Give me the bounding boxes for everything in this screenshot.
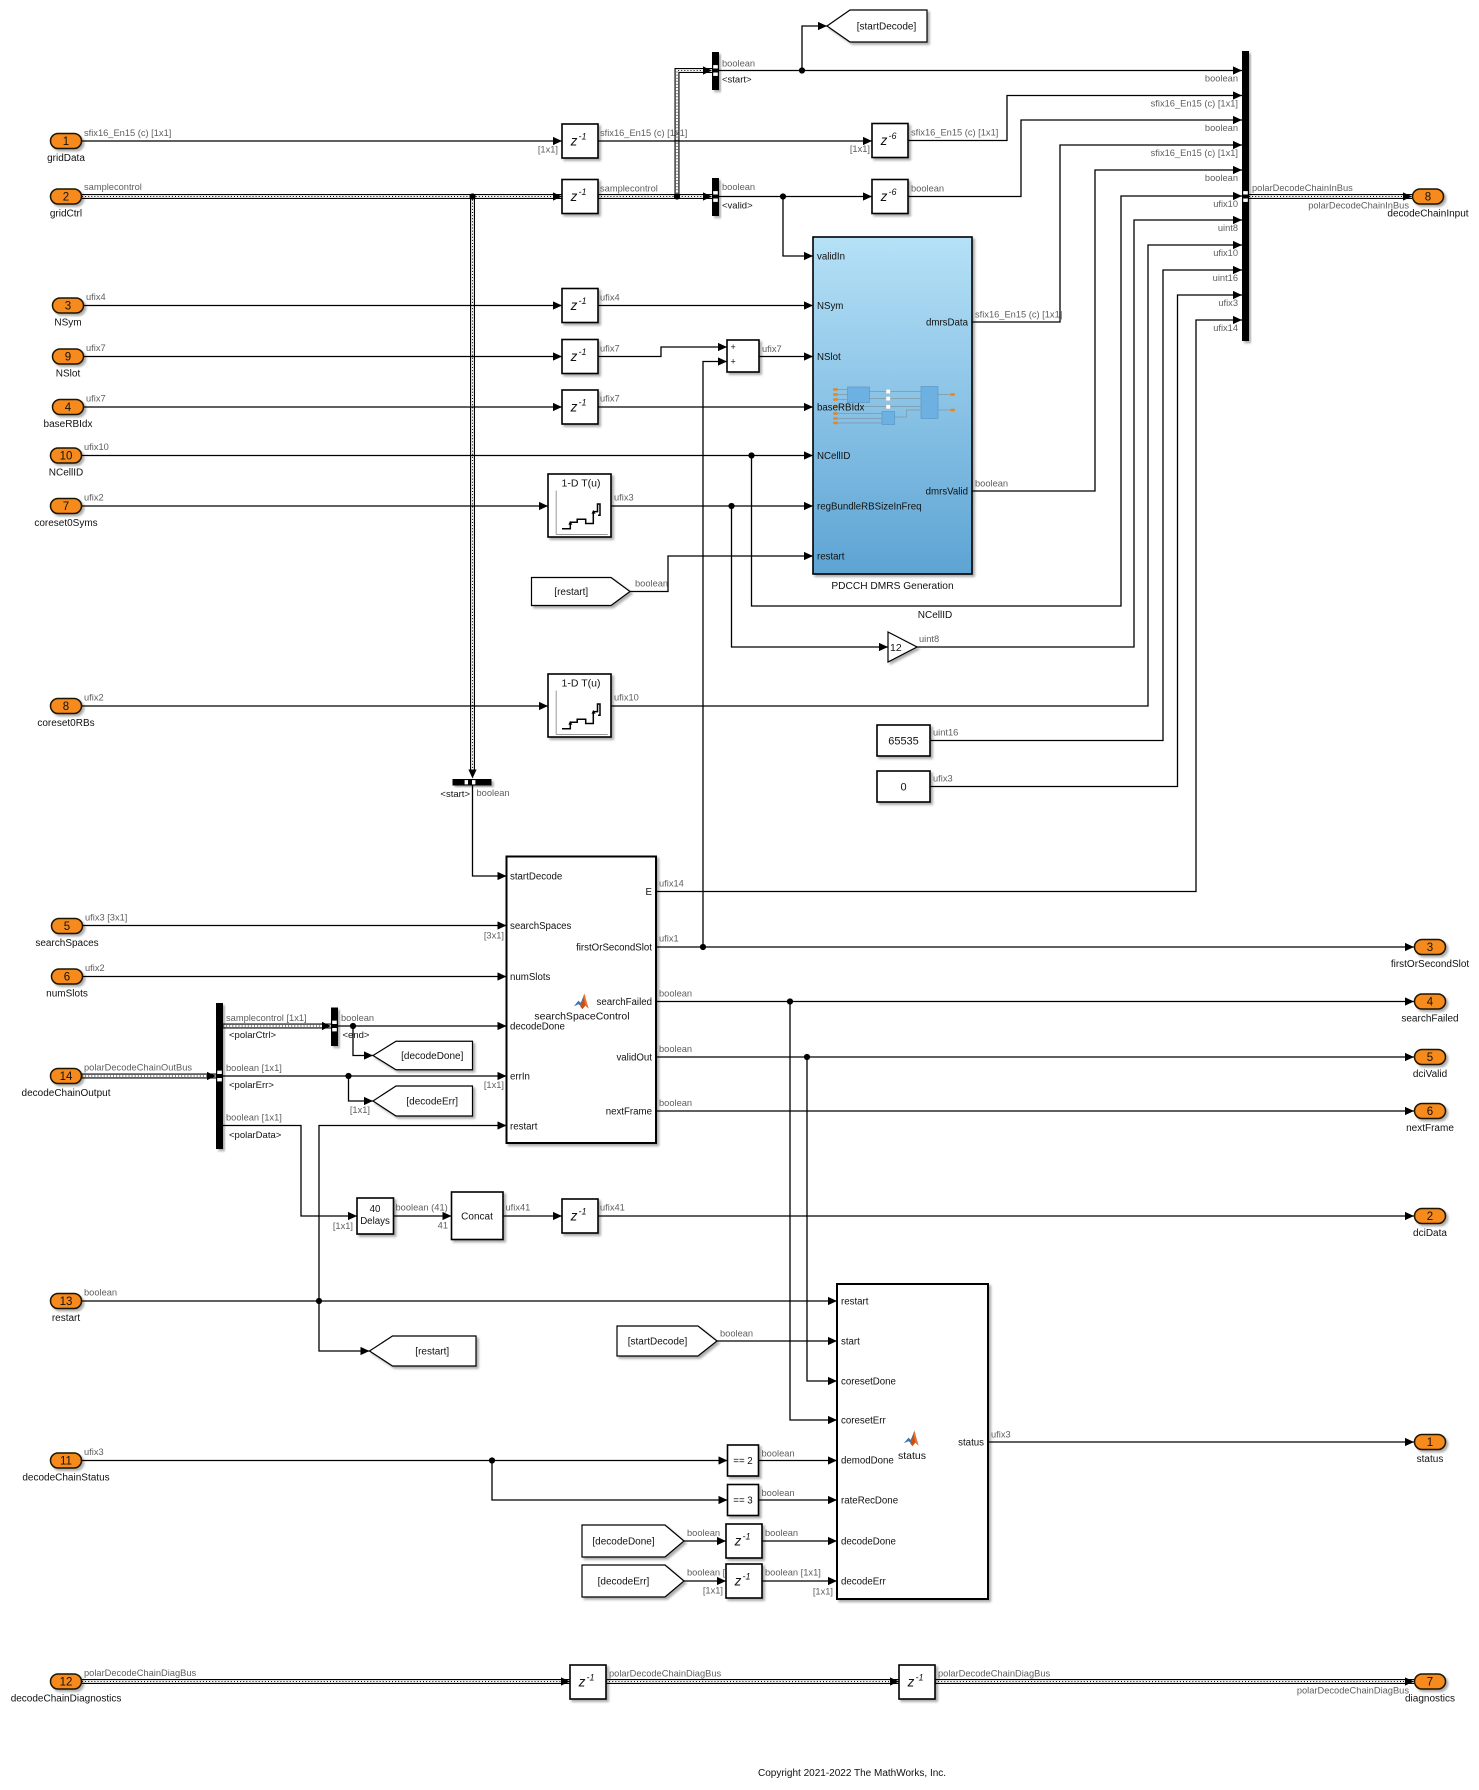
inport 6 numSlots <box>52 969 83 984</box>
svg-text:ufix4: ufix4 <box>86 292 106 302</box>
svg-text:ufix41: ufix41 <box>506 1203 531 1213</box>
svg-text:-1: -1 <box>916 1673 924 1683</box>
wire bus creator to decodeChainInput outport <box>1249 194 1412 199</box>
svg-text:<polarErr>: <polarErr> <box>229 1080 274 1091</box>
wire decodeChainStatus to eq2 <box>82 1460 728 1462</box>
svg-text:ufix3 [3x1]: ufix3 [3x1] <box>85 913 127 923</box>
svg-text:4: 4 <box>65 402 72 414</box>
wire NCellID branch to bus creator <box>752 196 1243 606</box>
svg-text:[decodeErr]: [decodeErr] <box>598 1577 650 1588</box>
block 40 delays <box>357 1198 394 1234</box>
delay Z-1 baseRBIdx <box>562 390 598 424</box>
svg-text:5: 5 <box>64 921 70 933</box>
svg-text:sfix16_En15 (c) [1x1]: sfix16_En15 (c) [1x1] <box>911 128 998 138</box>
wire branch up to startDecode goto <box>802 26 827 71</box>
wire branch to eq3 <box>492 1461 728 1501</box>
wire branch to decodeErr goto <box>349 1076 374 1101</box>
svg-text:coreset0RBs: coreset0RBs <box>37 718 94 729</box>
svg-text:boolean: boolean <box>720 1329 753 1339</box>
svg-text:coreset0Syms: coreset0Syms <box>34 518 97 529</box>
svg-text:coresetErr: coresetErr <box>841 1416 886 1427</box>
delay Z-1 decodeErr <box>726 1564 762 1598</box>
svg-text:ufix7: ufix7 <box>600 344 620 354</box>
svg-text:baseRBIdx: baseRBIdx <box>44 419 93 430</box>
svg-text:baseRBIdx: baseRBIdx <box>817 403 865 414</box>
svg-text:[startDecode]: [startDecode] <box>628 1337 688 1348</box>
svg-text:boolean (41): boolean (41) <box>396 1203 448 1213</box>
svg-text:restart: restart <box>510 1122 538 1133</box>
delay Z-1 diagnostics 1 <box>570 1665 606 1699</box>
delay Z-6 data <box>872 124 908 158</box>
svg-text:[decodeDone]: [decodeDone] <box>592 1537 654 1548</box>
svg-text:ufix7: ufix7 <box>762 344 782 354</box>
svg-text:boolean: boolean <box>1205 123 1238 133</box>
svg-text:ufix7: ufix7 <box>86 394 106 404</box>
delay Z-1 NSlot <box>562 340 598 374</box>
from tag startDecode <box>617 1326 717 1356</box>
svg-text:ufix3: ufix3 <box>933 774 953 784</box>
from tag decodeDone <box>582 1525 684 1557</box>
wire E ufix14 to bus creator <box>656 320 1242 892</box>
svg-text:ufix14: ufix14 <box>659 879 684 889</box>
svg-text:NSym: NSym <box>54 318 81 329</box>
svg-text:z: z <box>570 134 578 149</box>
svg-text:rateRecDone: rateRecDone <box>841 1496 898 1507</box>
svg-text:coresetDone: coresetDone <box>841 1377 896 1388</box>
svg-text:dciValid: dciValid <box>1413 1069 1447 1080</box>
svg-text:polarDecodeChainInBus: polarDecodeChainInBus <box>1308 201 1409 211</box>
svg-text:boolean [1x1]: boolean [1x1] <box>226 1113 282 1123</box>
thumbnail lines <box>838 390 950 424</box>
svg-text:-1: -1 <box>743 1572 751 1582</box>
thumbnail subsystem 1 <box>848 387 870 403</box>
wire diag delay2 to outport <box>935 1679 1414 1684</box>
wire sum to NSlot input <box>759 356 813 358</box>
svg-text:boolean: boolean <box>1205 173 1238 183</box>
inport 13 restart <box>51 1294 82 1309</box>
bus selector start <box>712 52 719 90</box>
svg-text:decodeChainDiagnostics: decodeChainDiagnostics <box>11 1694 122 1705</box>
svg-text:1: 1 <box>63 136 69 148</box>
wire gain uint8 to bus creator <box>916 220 1242 647</box>
svg-text:[1x1]: [1x1] <box>538 145 558 155</box>
svg-text:[1x1]: [1x1] <box>813 1587 833 1597</box>
svg-text:Concat: Concat <box>461 1212 493 1223</box>
wire baseRBIdx delay to block <box>598 406 813 408</box>
svg-text:<end>: <end> <box>343 1030 370 1041</box>
svg-text:polarDecodeChainOutBus: polarDecodeChainOutBus <box>84 1063 192 1073</box>
svg-text:+: + <box>731 357 736 367</box>
svg-text:ufix1: ufix1 <box>659 934 679 944</box>
delay Z-6 valid <box>872 180 908 214</box>
svg-text:Delays: Delays <box>360 1216 390 1227</box>
wire Z-6 boolean to bus creator <box>908 120 1242 197</box>
svg-text:ufix10: ufix10 <box>1213 199 1238 209</box>
svg-text:-1: -1 <box>579 296 587 306</box>
svg-text:z: z <box>734 1534 742 1549</box>
svg-text:1-D T(u): 1-D T(u) <box>562 478 601 490</box>
svg-text:3: 3 <box>65 301 71 313</box>
wire start boolean to bus creator <box>719 70 1242 72</box>
svg-text:ufix3: ufix3 <box>84 1447 104 1457</box>
inport 10 NCellID <box>51 448 82 463</box>
svg-text:<start>: <start> <box>722 75 752 86</box>
inport 5 searchSpaces <box>52 919 83 934</box>
svg-text:[1x1]: [1x1] <box>703 1586 723 1596</box>
svg-text:decodeChainStatus: decodeChainStatus <box>22 1473 109 1484</box>
svg-text:NSym: NSym <box>817 301 843 312</box>
svg-text:[decodeErr]: [decodeErr] <box>406 1097 458 1108</box>
svg-text:status: status <box>1417 1454 1444 1465</box>
svg-text:8: 8 <box>1425 192 1431 204</box>
svg-text:searchSpaces: searchSpaces <box>35 938 98 949</box>
svg-text:-1: -1 <box>579 398 587 408</box>
svg-text:boolean: boolean <box>762 1449 795 1459</box>
svg-text:-1: -1 <box>743 1532 751 1542</box>
svg-text:z: z <box>570 400 578 415</box>
svg-text:ufix10: ufix10 <box>614 693 639 703</box>
svg-text:z: z <box>880 189 888 204</box>
outport 4 searchFailed <box>1415 994 1446 1009</box>
wire dmrsData to bus creator <box>972 145 1242 322</box>
svg-text:demodDone: demodDone <box>841 1456 894 1467</box>
from tag restart <box>532 578 631 606</box>
svg-text:firstOrSecondSlot: firstOrSecondSlot <box>576 943 652 954</box>
svg-text:== 3: == 3 <box>733 1496 752 1507</box>
bus selector polarDecodeChainOutBus <box>216 1003 223 1149</box>
svg-text:uint16: uint16 <box>933 728 958 738</box>
svg-text:sfix16_En15 (c) [1x1]: sfix16_En15 (c) [1x1] <box>84 128 171 138</box>
goto tag restart <box>370 1336 477 1366</box>
wire coreset0RBs inport to lookup <box>82 705 548 707</box>
svg-text:2: 2 <box>63 192 69 204</box>
svg-text:boolean: boolean <box>635 579 668 589</box>
svg-text:1-D T(u): 1-D T(u) <box>562 678 601 690</box>
svg-text:boolean: boolean <box>84 1288 117 1298</box>
svg-text:start: start <box>841 1337 860 1348</box>
wire nextFrame to outport <box>656 1110 1414 1112</box>
outport 5 dciValid <box>1415 1050 1446 1065</box>
wire gridData delay to Z-6 <box>598 140 872 142</box>
outport 6 nextFrame <box>1415 1104 1446 1119</box>
svg-text:restart: restart <box>841 1297 869 1308</box>
svg-text:decodeDone: decodeDone <box>841 1537 896 1548</box>
wire searchSpaces inport to control <box>83 925 507 927</box>
svg-text:-1: -1 <box>579 1207 587 1217</box>
svg-text:boolean: boolean <box>911 184 944 194</box>
wire restart inport to status <box>82 1300 837 1302</box>
svg-text:7: 7 <box>63 501 69 513</box>
svg-text:nextFrame: nextFrame <box>606 1107 652 1118</box>
svg-text:validIn: validIn <box>817 252 845 263</box>
svg-text:samplecontrol: samplecontrol <box>84 182 142 192</box>
inport 1 gridData <box>51 134 82 149</box>
wire NSlot inport to delay <box>84 356 562 358</box>
wire constant 65535 to bus creator <box>930 270 1242 741</box>
wire end boolean to decodeDone <box>338 1025 507 1027</box>
thumbnail ports left <box>833 388 838 391</box>
wire branch to decodeDone goto <box>353 1026 373 1056</box>
svg-text:ufix10: ufix10 <box>1213 248 1238 258</box>
svg-text:uint8: uint8 <box>1218 223 1238 233</box>
svg-text:-6: -6 <box>889 131 897 141</box>
svg-text:[3x1]: [3x1] <box>484 931 504 941</box>
wire diag delay1 to delay2 <box>606 1679 899 1684</box>
inport 14 decodeChainOutput <box>51 1069 82 1084</box>
inport 4 baseRBIdx <box>53 400 84 415</box>
svg-text:<polarCtrl>: <polarCtrl> <box>229 1030 276 1041</box>
thumbnail white nodes <box>886 389 890 393</box>
svg-text:6: 6 <box>1427 1106 1433 1118</box>
svg-text:== 2: == 2 <box>733 1456 752 1467</box>
from tag decodeErr <box>582 1565 684 1597</box>
wire concat to delay <box>503 1215 562 1217</box>
sum block <box>727 340 759 372</box>
svg-text:z: z <box>570 1209 578 1224</box>
wire dciData delay to outport <box>598 1215 1414 1217</box>
svg-text:boolean: boolean <box>477 788 510 798</box>
svg-text:boolean: boolean <box>659 1098 692 1108</box>
svg-text:7: 7 <box>1427 1677 1433 1689</box>
svg-text:z: z <box>570 189 578 204</box>
svg-text:ufix2: ufix2 <box>85 963 105 973</box>
wire NSlot delay to sum <box>598 347 727 357</box>
lookup table coreset0Syms <box>548 474 611 537</box>
svg-text:searchSpaces: searchSpaces <box>510 921 572 932</box>
svg-text:decodeErr: decodeErr <box>841 1577 886 1588</box>
svg-text:14: 14 <box>60 1071 73 1083</box>
svg-text:+: + <box>731 342 736 352</box>
bus selector horizontal start <box>453 779 492 786</box>
svg-text:decodeChainOutput: decodeChainOutput <box>22 1088 111 1099</box>
svg-text:10: 10 <box>60 451 73 463</box>
svg-text:ufix3: ufix3 <box>991 1430 1011 1440</box>
wire coreset0Syms inport to lookup <box>82 505 548 507</box>
bus selector end <box>331 1008 338 1047</box>
svg-text:searchFailed: searchFailed <box>597 997 652 1008</box>
svg-text:3: 3 <box>1427 942 1433 954</box>
svg-text:9: 9 <box>65 352 71 364</box>
svg-text:polarDecodeChainDiagBus: polarDecodeChainDiagBus <box>1297 1686 1409 1696</box>
delay Z-1 decodeDone <box>726 1524 762 1558</box>
svg-text:40: 40 <box>370 1204 381 1215</box>
PDCCH DMRS Generation block <box>813 237 972 574</box>
constant 0 <box>877 771 930 802</box>
svg-text:Copyright 2021-2022 The MathWo: Copyright 2021-2022 The MathWorks, Inc. <box>758 1768 946 1779</box>
svg-text:[restart]: [restart] <box>415 1347 449 1358</box>
svg-text:z: z <box>570 349 578 364</box>
block concat <box>452 1192 504 1240</box>
svg-text:firstOrSecondSlot: firstOrSecondSlot <box>1391 959 1470 970</box>
svg-text:boolean: boolean <box>975 479 1008 489</box>
wire NCellID inport to block <box>82 455 813 457</box>
svg-text:sfix16_En15 (c) [1x1]: sfix16_En15 (c) [1x1] <box>1151 99 1238 109</box>
wire NSym delay to block <box>598 305 813 307</box>
svg-text:ufix7: ufix7 <box>86 343 106 353</box>
svg-text:NCellID: NCellID <box>918 610 952 621</box>
wire 40 delays to concat <box>394 1215 452 1217</box>
wire gridCtrl samplecontrol bus to delay <box>82 194 562 199</box>
svg-text:-1: -1 <box>579 347 587 357</box>
outport 8 decodeChainInput <box>1413 189 1444 204</box>
delay Z-1 samplecontrol <box>562 180 598 214</box>
wire firstOrSecondSlot feedback to sum <box>703 362 727 948</box>
svg-text:uint16: uint16 <box>1213 273 1238 283</box>
delay Z-1 NSym <box>562 289 598 323</box>
svg-text:<start>: <start> <box>440 789 470 800</box>
svg-text:-6: -6 <box>889 187 897 197</box>
thumbnail subsystem 3 <box>921 387 938 419</box>
wire status to outport <box>988 1441 1414 1443</box>
wire delay to decodeDone input <box>762 1540 837 1542</box>
svg-text:boolean [1x1]: boolean [1x1] <box>765 1568 821 1578</box>
svg-text:regBundleRBSizeInFreq: regBundleRBSizeInFreq <box>817 502 921 513</box>
svg-text:status: status <box>958 1438 984 1449</box>
wire gridData inport to delay <box>82 140 562 142</box>
goto tag decodeDone <box>373 1041 473 1070</box>
wire restart from-tag to block restart <box>630 556 813 592</box>
svg-text:dmrsValid: dmrsValid <box>926 487 968 498</box>
delay Z-1 gridData <box>562 124 598 158</box>
inport 8 coreset0RBs <box>51 699 82 714</box>
svg-text:boolean: boolean <box>659 989 692 999</box>
wire NSym inport to delay <box>84 305 562 307</box>
wire regBundle branch down to gain <box>732 506 889 647</box>
inport 9 NSlot <box>53 349 84 364</box>
wire samplecontrol bus branch up to start bus-selector <box>677 71 712 197</box>
svg-text:samplecontrol [1x1]: samplecontrol [1x1] <box>226 1013 307 1023</box>
wire Z-6 data to bus creator <box>908 96 1242 141</box>
svg-text:searchFailed: searchFailed <box>1401 1014 1458 1025</box>
wire lookup ufix10 to bus creator <box>611 245 1242 706</box>
wire lookup ufix3 to regBundleRBSizeInFreq <box>611 505 813 507</box>
svg-text:[startDecode]: [startDecode] <box>857 22 917 33</box>
outport 1 status <box>1415 1435 1446 1450</box>
svg-text:[1x1]: [1x1] <box>484 1080 504 1090</box>
bus selector valid <box>712 178 719 216</box>
wire startDecode from-tag to start <box>717 1340 837 1342</box>
wire constant 0 to bus creator <box>930 295 1242 787</box>
wire searchFailed to outport <box>656 1001 1414 1003</box>
wire numSlots inport to control <box>83 976 507 978</box>
svg-text:gridData: gridData <box>47 153 85 164</box>
svg-text:boolean: boolean <box>341 1013 374 1023</box>
svg-text:polarDecodeChainDiagBus: polarDecodeChainDiagBus <box>84 1668 196 1678</box>
svg-text:65535: 65535 <box>888 736 919 748</box>
svg-text:boolean: boolean <box>722 59 755 69</box>
svg-text:-1: -1 <box>579 187 587 197</box>
wire diagnostics inport to delay <box>82 1679 570 1684</box>
thumbnail subsystem 2 <box>882 412 895 425</box>
svg-text:boolean: boolean <box>1205 74 1238 84</box>
svg-text:startDecode: startDecode <box>510 872 562 883</box>
MATLAB function searchSpaceControl <box>507 857 657 1144</box>
svg-text:polarDecodeChainInBus: polarDecodeChainInBus <box>1252 183 1353 193</box>
svg-text:5: 5 <box>1427 1052 1433 1064</box>
wire baseRBIdx inport to delay <box>84 406 562 408</box>
svg-text:ufix2: ufix2 <box>84 693 104 703</box>
inport 7 coreset0Syms <box>51 499 82 514</box>
svg-text:12: 12 <box>60 1677 73 1689</box>
svg-text:ufix3: ufix3 <box>1218 298 1238 308</box>
svg-text:boolean [1x1]: boolean [1x1] <box>226 1063 282 1073</box>
svg-text:ufix4: ufix4 <box>600 293 620 303</box>
svg-text:numSlots: numSlots <box>510 972 551 983</box>
svg-text:-1: -1 <box>587 1673 595 1683</box>
svg-text:ufix41: ufix41 <box>600 1203 625 1213</box>
svg-text:-1: -1 <box>579 132 587 142</box>
svg-text:z: z <box>880 133 888 148</box>
wire samplecontrol bus delay to valid bus-selector <box>598 194 712 199</box>
svg-text:z: z <box>734 1574 742 1589</box>
wire firstOrSecondSlot to outport <box>656 946 1414 948</box>
svg-text:uint8: uint8 <box>919 634 939 644</box>
wire delay to decodeErr input <box>762 1580 837 1582</box>
svg-text:PDCCH DMRS Generation: PDCCH DMRS Generation <box>831 581 953 592</box>
wire polarCtrl bus to end selector <box>223 1024 331 1029</box>
MATLAB function status <box>837 1284 988 1599</box>
wire samplecontrol bus branch down to start selector (bottom) <box>470 197 475 771</box>
svg-text:ufix3: ufix3 <box>614 493 634 503</box>
wire eq3 to rateRecDone <box>759 1499 838 1501</box>
constant 65535 <box>877 725 930 756</box>
svg-text:ufix10: ufix10 <box>84 442 109 452</box>
svg-text:ufix14: ufix14 <box>1213 323 1238 333</box>
compare eq3 <box>728 1485 759 1516</box>
wire searchFailed branch to coresetErr <box>790 1002 837 1421</box>
svg-text:4: 4 <box>1427 997 1434 1009</box>
wire decodeDone from-tag to delay <box>684 1540 726 1542</box>
lookup table coreset0RBs <box>548 674 611 737</box>
svg-text:E: E <box>646 887 653 898</box>
svg-text:0: 0 <box>900 782 906 794</box>
gain 12 <box>888 632 917 662</box>
svg-text:12: 12 <box>890 642 902 654</box>
svg-text:<valid>: <valid> <box>722 201 753 212</box>
compare eq2 <box>728 1445 759 1476</box>
svg-text:numSlots: numSlots <box>46 989 88 1000</box>
svg-text:NSlot: NSlot <box>56 369 81 380</box>
thumbnail ports right <box>950 393 955 396</box>
svg-text:13: 13 <box>60 1296 73 1308</box>
svg-text:restart: restart <box>52 1313 81 1324</box>
svg-text:decodeDone: decodeDone <box>510 1022 565 1033</box>
delay Z-1 dciData <box>562 1199 598 1233</box>
svg-text:diagnostics: diagnostics <box>1405 1694 1455 1705</box>
svg-text:NCellID: NCellID <box>49 468 83 479</box>
svg-text:boolean: boolean <box>687 1528 720 1538</box>
wire decodeErr from-tag to delay <box>684 1580 726 1582</box>
svg-text:sfix16_En15 (c) [1x1]: sfix16_En15 (c) [1x1] <box>975 310 1062 320</box>
svg-text:[1x1]: [1x1] <box>333 1221 353 1231</box>
outport 7 diagnostics <box>1415 1674 1446 1689</box>
svg-text:z: z <box>578 1675 586 1690</box>
outport 3 firstOrSecondSlot <box>1415 940 1446 955</box>
svg-text:<polarData>: <polarData> <box>229 1130 282 1141</box>
wire restart riser to control restart <box>319 1126 507 1302</box>
svg-text:dmrsData: dmrsData <box>926 318 969 329</box>
inport 2 gridCtrl <box>51 189 82 204</box>
svg-text:ufix7: ufix7 <box>600 394 620 404</box>
svg-text:[1x1]: [1x1] <box>350 1105 370 1115</box>
svg-text:boolean: boolean <box>765 1528 798 1538</box>
wire decodeChainOutput bus to selector <box>82 1074 216 1079</box>
svg-text:2: 2 <box>1427 1211 1433 1223</box>
svg-text:boolean: boolean <box>659 1044 692 1054</box>
svg-text:1: 1 <box>1427 1437 1433 1449</box>
svg-text:boolean: boolean <box>722 182 755 192</box>
inport 12 decodeChainDiagnostics <box>51 1674 82 1689</box>
